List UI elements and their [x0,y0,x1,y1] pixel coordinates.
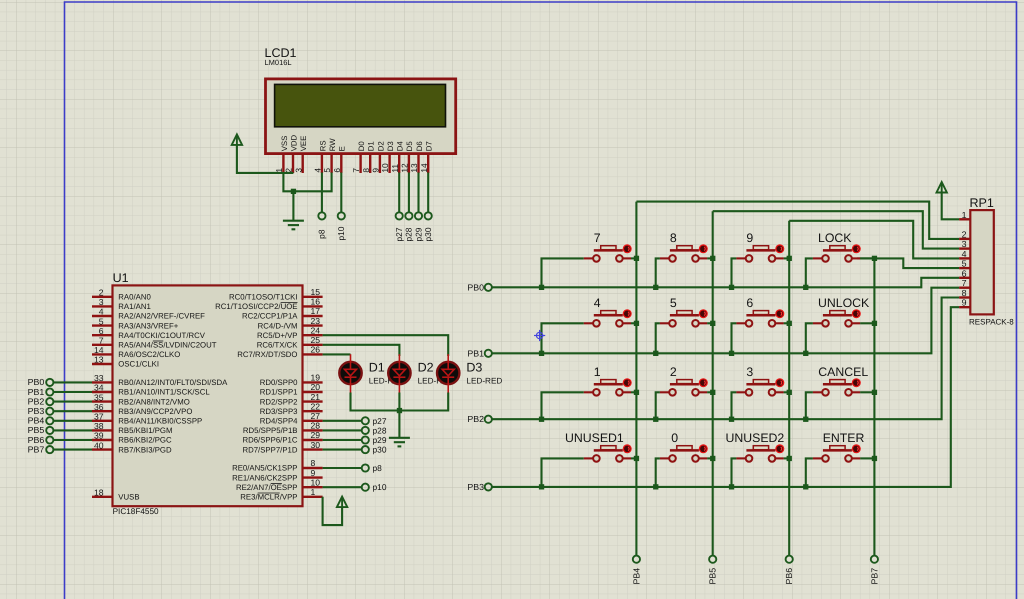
svg-text:RB7/KBI3/PGD: RB7/KBI3/PGD [118,445,172,454]
svg-text:PB5: PB5 [28,425,45,435]
svg-text:p27: p27 [373,416,387,426]
wire column 2 vertical [712,211,714,555]
wire 4 left to row [542,323,584,353]
svg-text:PB3: PB3 [28,406,45,416]
svg-text:D6: D6 [415,141,424,151]
svg-text:PB7: PB7 [869,568,879,585]
svg-text:E: E [338,146,347,151]
svg-text:RW: RW [328,138,337,151]
ground below LCD [283,221,304,230]
junction column1 row1 [634,256,639,261]
svg-text:10: 10 [380,163,390,173]
svg-text:7: 7 [99,336,104,346]
junction row2 col1 [539,351,544,356]
terminal PB5 (left) [46,427,53,434]
svg-text:9: 9 [746,231,753,245]
terminal p8 (U1) [362,464,369,471]
wire RE3 to power [323,497,343,525]
junction row4 col3 [729,484,734,489]
wire E to p10 [340,173,342,213]
junction column4 row3 [872,390,877,395]
svg-text:14: 14 [419,163,429,173]
svg-text:PB2: PB2 [28,396,45,406]
svg-text:RD0/SPP0: RD0/SPP0 [260,378,298,387]
terminal PB4 (bottom) [633,556,640,563]
terminal PB6 (left) [46,436,53,443]
wire PB7 to RB7 [54,449,93,451]
wire PB0 to RB0 [54,381,93,383]
terminal PB0 (left) [46,379,53,386]
svg-text:RC0/T1OSO/T1CKI: RC0/T1OSO/T1CKI [229,293,297,302]
svg-text:PB0: PB0 [467,282,484,292]
terminal p30 (LCD) [425,212,432,219]
svg-text:RA3/AN3/VREF+: RA3/AN3/VREF+ [118,321,178,330]
svg-text:VEE: VEE [299,136,308,152]
wire UNUSED2 left to row [732,458,737,487]
terminal PB5 (bottom) [709,556,716,563]
push button 2 [660,378,708,395]
svg-text:D1: D1 [367,141,376,151]
wire 0 left to row [656,458,660,487]
svg-text:D2: D2 [418,361,434,375]
svg-text:3: 3 [746,365,753,379]
terminal PB0 (keypad) [485,284,492,291]
junction column3 row1 [787,256,792,261]
wire 6 right to column [784,322,790,324]
terminal PB3 (keypad) [485,483,492,490]
push button 4 [584,309,632,326]
junction column3 row4 [787,456,792,461]
svg-text:3: 3 [99,297,104,307]
push button LOCK [813,244,861,261]
LED D1 [339,354,361,392]
junction row3 col2 [653,417,658,422]
wire 3 left to row [732,392,737,419]
svg-text:LED-RED: LED-RED [466,377,502,386]
svg-text:D5: D5 [405,141,414,152]
wire LED cathode rail [351,393,449,411]
wire D7 to p30 [427,173,429,213]
svg-text:RD6/SPP6/P1C: RD6/SPP6/P1C [242,436,297,445]
svg-text:UNUSED2: UNUSED2 [726,431,785,445]
wire PB5 to RB5 [54,429,93,431]
push button 8 [660,244,708,261]
svg-text:RA5/AN4/SS/LVDIN/C2OUT: RA5/AN4/SS/LVDIN/C2OUT [118,341,216,350]
wire 6 left to row [732,323,737,353]
wire D4 to p27 [398,173,400,213]
wire RC5 to D3 [323,335,449,356]
wire D5 to p28 [408,173,410,213]
terminal PB1 (left) [46,388,53,395]
svg-text:PB2: PB2 [467,414,484,424]
svg-text:6: 6 [332,168,342,173]
terminal p28 (U1) [362,427,369,434]
terminal p30 (U1) [362,446,369,453]
RP1 pin numbers [962,210,967,308]
wire 5 right to column [707,322,713,324]
LED D3 [437,354,459,392]
push button 5 [660,309,708,326]
svg-text:PB5: PB5 [708,568,718,585]
wire 2 left to row [656,392,660,419]
junction row2 col3 [729,351,734,356]
svg-text:D3: D3 [466,361,482,375]
junction LED rail [397,408,402,413]
svg-text:D7: D7 [425,141,434,151]
wire RE0 to p8 [323,467,362,469]
wire row2 PB1 to RP1 pin 7 [492,288,959,354]
LED D2 [388,354,410,392]
svg-text:RC2/CCP1/P1A: RC2/CCP1/P1A [242,312,298,321]
svg-text:13: 13 [94,355,104,365]
svg-text:RD1/SPP1: RD1/SPP1 [260,388,298,397]
svg-text:p8: p8 [373,463,383,473]
wire LOCK left to row [806,258,813,287]
push button UNLOCK [813,309,861,326]
svg-text:p27: p27 [394,227,404,241]
svg-text:8: 8 [962,288,967,298]
wire 2 right to column [707,391,713,393]
svg-text:p30: p30 [373,445,387,455]
push button UNUSED1 [584,444,632,461]
terminal PB2 (left) [46,398,53,405]
push button CANCEL [813,378,861,395]
wire 0 right to column [707,457,713,459]
svg-text:RC1/T1OSI/CCP2/UOE: RC1/T1OSI/CCP2/UOE [215,302,297,311]
svg-text:RB0/AN12/INT0/FLT0/SDI/SDA: RB0/AN12/INT0/FLT0/SDI/SDA [118,378,228,387]
junction row3 col4 [803,417,808,422]
wire 3 right to column [784,391,790,393]
svg-text:39: 39 [94,431,104,441]
svg-text:PB4: PB4 [631,568,641,585]
LCD pin numbers 1-14 [274,163,429,173]
svg-text:11: 11 [390,164,400,173]
svg-text:17: 17 [311,306,321,316]
terminal p28 (LCD) [405,212,412,219]
wire 5 left to row [656,323,660,353]
U1 right pin stubs [303,297,323,497]
svg-text:RA4/T0CKI/C1OUT/RCV: RA4/T0CKI/C1OUT/RCV [118,331,205,340]
svg-text:LM016L: LM016L [265,58,292,67]
svg-text:15: 15 [311,287,321,297]
terminal PB7 (left) [46,446,53,453]
wire column1 to RP1 pin 2 [636,202,959,239]
wire 1 left to row [542,392,584,419]
svg-text:RB4/AN11/KBI0/CSSPP: RB4/AN11/KBI0/CSSPP [118,417,202,426]
svg-text:RE0/AN5/CK1SPP: RE0/AN5/CK1SPP [232,464,297,473]
wire row1 PB0 to RP1 pin 6 [492,278,959,288]
svg-text:3: 3 [293,168,303,173]
wire to ground [292,191,294,220]
terminal p27 (LCD) [396,212,403,219]
svg-text:RA2/AN2/VREF-/CVREF: RA2/AN2/VREF-/CVREF [118,312,205,321]
terminal PB6 (bottom) [786,556,793,563]
svg-text:D4: D4 [396,141,405,152]
junction column1 row2 [634,321,639,326]
wire power to RP1 pin 1 [942,193,959,220]
svg-text:1: 1 [311,487,316,497]
svg-text:24: 24 [311,325,321,335]
LCD pin names VSS..D7 [280,134,434,151]
junction column1 row4 [634,456,639,461]
svg-text:RC6/TX/CK: RC6/TX/CK [257,341,299,350]
svg-text:PB6: PB6 [784,568,794,585]
terminal p10 (LCD) [338,212,345,219]
wire 8 left to row [656,258,660,287]
junction row2 col2 [653,351,658,356]
svg-text:8: 8 [361,168,371,173]
svg-text:2: 2 [99,288,104,298]
terminal PB3 (left) [46,408,53,415]
svg-text:RC7/RX/DT/SDO: RC7/RX/DT/SDO [237,350,297,359]
wire rail to ground [398,411,400,438]
wire LOCK right to column [860,257,874,259]
svg-text:RA6/OSC2/CLKO: RA6/OSC2/CLKO [118,350,180,359]
svg-text:33: 33 [94,373,104,383]
svg-text:9: 9 [962,298,967,308]
overlines on active-low pin names [153,303,298,493]
wire column 3 vertical [788,221,790,556]
junction row4 col2 [653,484,658,489]
svg-text:PB0: PB0 [28,377,45,387]
svg-text:2: 2 [670,365,677,379]
svg-text:PB7: PB7 [28,444,45,454]
svg-text:22: 22 [311,401,321,411]
svg-text:PB6: PB6 [28,435,45,445]
origin marker [534,330,545,341]
wire UNLOCK right to column [860,322,874,324]
svg-text:p28: p28 [404,227,414,241]
push button ENTER [813,444,861,461]
junction row4 col1 [539,484,544,489]
U1 pin names and numbers [94,287,320,502]
junction column2 row1 [710,256,715,261]
svg-text:26: 26 [311,345,321,355]
svg-text:RD2/SPP2: RD2/SPP2 [260,397,298,406]
svg-text:4: 4 [313,168,323,173]
svg-text:5: 5 [322,168,332,173]
svg-text:p10: p10 [373,482,387,492]
svg-text:VDD: VDD [289,134,298,151]
junction row2 col4 [803,351,808,356]
svg-text:4: 4 [594,296,601,310]
svg-text:0: 0 [671,431,678,445]
svg-text:5: 5 [99,316,104,326]
svg-text:RC4/D-/VM: RC4/D-/VM [258,321,298,330]
svg-text:ENTER: ENTER [823,431,865,445]
svg-text:29: 29 [311,430,321,440]
wire PB6 to RB6 [54,439,93,441]
svg-text:PB1: PB1 [467,348,484,358]
push button 1 [584,378,632,395]
svg-text:PB3: PB3 [467,482,484,492]
svg-text:RB1/AN10/INT1/SCK/SCL: RB1/AN10/INT1/SCK/SCL [118,388,210,397]
junction row1 col1 [539,285,544,290]
wire PB3 to RB3 [54,410,93,412]
wire 4 right to column [631,322,636,324]
power symbol near LCD [232,134,242,145]
ground below LEDs [389,438,410,447]
wire CANCEL right to column [860,391,874,393]
wire 7 right to column [631,257,636,259]
svg-text:RD3/SPP3: RD3/SPP3 [260,407,298,416]
wire RD6 to p29 [323,439,362,441]
svg-text:U1: U1 [113,271,129,285]
svg-text:20: 20 [311,382,321,392]
wire UNUSED1 right to column [631,457,636,459]
junction row1 col2 [653,285,658,290]
svg-text:30: 30 [311,440,321,450]
svg-text:12: 12 [400,163,410,173]
junction row1 col4 [803,285,808,290]
svg-text:7: 7 [962,278,967,288]
wire column 4 vertical [873,258,875,555]
svg-text:34: 34 [94,383,104,393]
svg-text:RC5/D+/VP: RC5/D+/VP [257,331,298,340]
svg-text:RD5/SPP5/P1B: RD5/SPP5/P1B [243,426,298,435]
junction row3 col3 [729,417,734,422]
svg-text:p29: p29 [413,227,423,241]
wire UNUSED1 left to row [542,458,584,487]
svg-text:D3: D3 [386,141,395,151]
svg-text:RE3/MCLR/VPP: RE3/MCLR/VPP [240,493,297,502]
svg-text:23: 23 [311,316,321,326]
wire power to VDD [237,145,294,173]
svg-text:8: 8 [670,231,677,245]
wire 7 left to row [542,258,584,287]
svg-text:RP1: RP1 [970,196,994,210]
junction column4 row2 [872,321,877,326]
wire RS to p8 [321,173,323,213]
svg-text:D2: D2 [376,141,385,151]
svg-text:1: 1 [594,365,601,379]
junction row4 col4 [803,484,808,489]
svg-text:RE1/AN6/CK2SPP: RE1/AN6/CK2SPP [232,473,297,482]
svg-text:RE2/AN7/OESPP: RE2/AN7/OESPP [236,483,298,492]
power symbol near RE3 [337,497,347,508]
wire ENTER right to column [860,457,874,459]
wire 9 left to row [732,258,737,287]
svg-text:OSC1/CLKI: OSC1/CLKI [118,360,159,369]
wire RD5 to p28 [323,429,362,431]
power symbol near RP1 [937,182,947,193]
terminal PB1 (keypad) [485,350,492,357]
junction column4 row4 [872,456,877,461]
wire column2 to RP1 pin 3 [713,211,959,248]
wire column 1 vertical [635,202,637,556]
svg-text:p30: p30 [423,227,433,241]
svg-text:5: 5 [670,296,677,310]
push button UNUSED2 [736,444,784,461]
push button 6 [736,309,784,326]
terminal p29 (U1) [362,436,369,443]
svg-text:8: 8 [311,458,316,468]
wire row4 PB3 to RP1 pin 9 [492,307,959,487]
resistor pack RP1 body [959,210,994,314]
svg-text:4: 4 [962,249,967,259]
svg-text:40: 40 [94,440,104,450]
svg-text:PB1: PB1 [28,387,45,397]
wire D6 to p29 [417,173,419,213]
terminal p27 (U1) [362,417,369,424]
svg-text:10: 10 [311,477,321,487]
junction ground net [291,189,296,194]
svg-text:RD4/SPP4: RD4/SPP4 [260,417,298,426]
junction column1 row3 [634,390,639,395]
junction column2 row3 [710,390,715,395]
svg-text:UNUSED1: UNUSED1 [565,431,624,445]
wire PB1 to RB1 [54,391,93,393]
svg-text:LOCK: LOCK [818,231,852,245]
svg-text:35: 35 [94,392,104,402]
svg-text:RB2/AN8/INT2/VMO: RB2/AN8/INT2/VMO [118,397,190,406]
svg-text:21: 21 [311,392,321,402]
wire 8 right to column [707,257,713,259]
wire column3 to RP1 pin 4 [789,221,959,259]
svg-text:7: 7 [594,231,601,245]
wire RD7 to p30 [323,449,362,451]
svg-text:19: 19 [311,373,321,383]
junction column3 row2 [787,321,792,326]
wire UNLOCK left to row [806,323,813,353]
svg-text:36: 36 [94,402,104,412]
svg-text:RS: RS [318,140,327,151]
svg-text:6: 6 [99,326,104,336]
svg-text:6: 6 [962,268,967,278]
push button 7 [584,244,632,261]
terminal PB2 (keypad) [485,416,492,423]
terminal p10 (U1) [362,484,369,491]
wire column4 to RP1 pin 5 [857,258,959,268]
wire UNUSED2 right to column [784,457,790,459]
svg-text:3: 3 [962,239,967,249]
svg-text:CANCEL: CANCEL [818,365,868,379]
terminal PB7 (bottom) [871,556,878,563]
push button 9 [736,244,784,261]
svg-text:RA0/AN0: RA0/AN0 [118,293,151,302]
LCD display LCD1 body [266,79,456,173]
svg-text:RB5/KBI1/PGM: RB5/KBI1/PGM [118,426,172,435]
wire CANCEL left to row [806,392,813,419]
wire RE2 to p10 [323,486,362,488]
svg-text:PB4: PB4 [28,416,45,426]
wire RC7 to D1 [323,353,351,355]
wire row3 PB2 to RP1 pin 8 [492,298,959,420]
junction row1 col3 [729,285,734,290]
svg-text:VSS: VSS [280,136,289,152]
svg-text:UNLOCK: UNLOCK [818,296,870,310]
junction column4 row1 [872,256,877,261]
svg-text:p8: p8 [317,229,327,239]
wire RD4 to p27 [323,420,362,422]
svg-text:37: 37 [94,412,104,422]
push button 3 [736,378,784,395]
svg-text:9: 9 [371,168,381,173]
op U1 body [113,285,303,506]
U1 left pin stubs [92,297,113,497]
svg-text:PIC18F4550: PIC18F4550 [113,507,159,516]
wire ENTER left to row [806,458,813,487]
wire D2 cathode [398,393,400,411]
svg-text:5: 5 [962,259,967,269]
svg-text:7: 7 [351,168,361,173]
svg-text:38: 38 [94,421,104,431]
terminal PB4 (left) [46,417,53,424]
svg-text:13: 13 [409,163,419,173]
svg-text:VUSB: VUSB [118,493,139,502]
svg-text:18: 18 [94,488,104,498]
junction row3 col1 [539,417,544,422]
